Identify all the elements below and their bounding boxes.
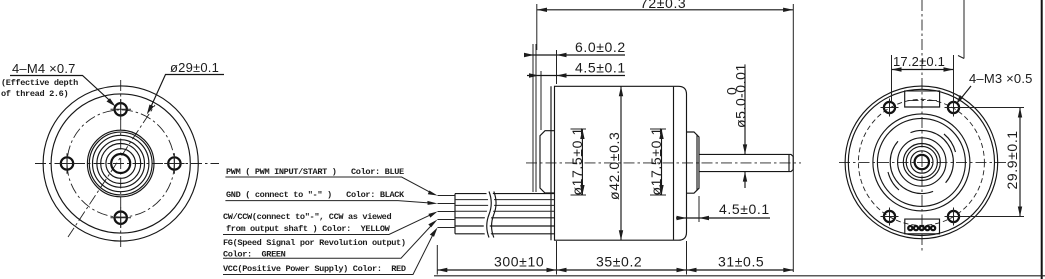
svg-text:FG(Speed Signal por Revolution: FG(Speed Signal por Revolution output) <box>223 238 406 248</box>
label dia 29 <box>147 60 224 115</box>
svg-text:CW/CCW(connect to"-", CCW as v: CW/CCW(connect to"-", CCW as viewed <box>223 212 391 222</box>
SIDE-VIEW <box>437 0 801 275</box>
hole top <box>111 99 132 120</box>
drawing frame right border <box>1041 0 1043 279</box>
left view inner flange circle <box>51 94 190 233</box>
rear circle r15.6 thick <box>906 146 937 177</box>
svg-text:300±10: 300±10 <box>494 254 544 270</box>
svg-text:PWM ( PWM INPUT/START ) Colo: PWM ( PWM INPUT/START ) Color: BLUE <box>226 167 404 177</box>
wire lines <box>455 200 555 212</box>
rear circle r18.5 <box>903 144 940 181</box>
dim dia5 shaft <box>724 63 749 188</box>
svg-text:17.2±0.1: 17.2±0.1 <box>893 54 945 69</box>
left view diagonal centerline <box>68 105 155 237</box>
left view boss circle 3 <box>97 140 145 188</box>
motor body crimp line <box>673 87 675 240</box>
rear hole top-left <box>881 99 899 117</box>
step extension lines <box>533 44 541 192</box>
rear outer circle <box>845 86 998 239</box>
label effective depth <box>1 78 78 99</box>
left view boss circle 4 <box>101 144 141 184</box>
motor body <box>555 86 687 240</box>
svg-text:35±0.2: 35±0.2 <box>596 254 642 270</box>
svg-text:4.5±0.1: 4.5±0.1 <box>719 201 770 217</box>
svg-text:4–M3 ×0.5: 4–M3 ×0.5 <box>969 71 1033 86</box>
hole left <box>57 153 77 173</box>
wire bundle outline <box>455 194 555 234</box>
svg-text:6.0±0.2: 6.0±0.2 <box>575 39 626 55</box>
svg-text:of thread 2.6): of thread 2.6) <box>1 89 68 99</box>
left view shaft hole <box>111 154 130 173</box>
svg-text:31±0.5: 31±0.5 <box>718 254 764 270</box>
pin hole 5 <box>931 226 935 230</box>
pin hole 1 <box>908 226 912 230</box>
left view boss circle 5 <box>106 149 136 179</box>
dim 17.2 <box>892 54 954 101</box>
left view boss circle 2 <box>93 135 149 191</box>
rear shaft hole <box>915 155 929 169</box>
svg-text:(Effective depth: (Effective depth <box>1 78 78 88</box>
left view vertical centerline <box>120 80 122 249</box>
dim 72 <box>537 0 794 272</box>
svg-text:ø5.0: ø5.0 <box>733 98 749 128</box>
dim dia17.5 left <box>569 127 586 195</box>
rear bolt circle dashed <box>858 99 984 225</box>
dim 6.0 <box>524 39 626 84</box>
svg-text:from output shaft ) Color: YE: from output shaft ) Color: YELLOW <box>226 224 391 234</box>
rear view vertical centerline <box>921 0 923 252</box>
rear top slot rect <box>905 91 940 107</box>
label GND wire <box>225 190 437 205</box>
WIRE-LABELS <box>223 167 438 275</box>
rear hole bottom-left <box>881 208 899 226</box>
REAR-VIEW <box>839 0 1033 252</box>
rear hole top-right <box>945 99 963 117</box>
rear hole bottom-right <box>945 208 963 226</box>
svg-text:GND ( connect to "-" ) Color: GND ( connect to "-" ) Color: BLACK <box>226 190 405 200</box>
svg-text:ø29±0.1: ø29±0.1 <box>170 60 219 75</box>
hole right <box>164 153 184 173</box>
rear connector box <box>905 219 940 234</box>
svg-text:VCC(Positive Power Supply) Col: VCC(Positive Power Supply) Color: RED <box>223 264 406 274</box>
wire break S-curves <box>487 192 496 238</box>
dim 4.5 right <box>676 196 770 222</box>
LEFT-VIEW <box>1 60 224 249</box>
dim 29.9 <box>961 108 1024 217</box>
pin hole 3 <box>920 226 924 230</box>
svg-text:-0.01: -0.01 <box>733 63 749 98</box>
dim dia17.5 right <box>648 127 666 195</box>
left view outer circle <box>43 86 198 241</box>
rear arc ring r31.5 <box>890 130 953 193</box>
dim 4.5 left <box>527 60 626 78</box>
hole bottom <box>111 208 132 229</box>
rear circle r49 <box>873 114 970 211</box>
svg-text:4.5±0.1: 4.5±0.1 <box>575 60 626 76</box>
svg-text:ø42.0±0.3: ø42.0±0.3 <box>606 132 622 200</box>
svg-text:4–M4 ×0.7: 4–M4 ×0.7 <box>12 61 76 76</box>
rear arc r35.5 <box>888 134 956 190</box>
left view bolt circle <box>67 110 174 217</box>
motor axis centerline <box>526 162 801 164</box>
pin hole 2 <box>914 226 918 230</box>
shaft tip chamfer line <box>788 155 790 172</box>
left boss <box>540 131 555 193</box>
motor body left face line <box>550 86 552 240</box>
shaft <box>699 154 793 171</box>
rear circle r24 <box>898 138 946 186</box>
svg-text:29.9±0.1: 29.9±0.1 <box>1004 130 1020 189</box>
dim dia42 <box>606 86 623 240</box>
label FG wire <box>223 220 438 260</box>
rear view horizontal centerline <box>839 161 1007 163</box>
cropped extension line top right <box>958 0 964 59</box>
label PWM wire <box>225 167 437 196</box>
right boss <box>687 132 700 193</box>
label CW/CCW wire <box>223 212 438 235</box>
label 4-M3 x0.5 <box>956 71 1032 104</box>
rear circle r44 <box>877 118 965 206</box>
wire stubs <box>438 196 456 228</box>
left view horizontal centerline <box>35 163 219 165</box>
drawing frame bottom border <box>434 275 1045 277</box>
right boss face inner line <box>696 135 698 191</box>
label VCC wire <box>223 228 438 275</box>
rear circle r11.2 <box>911 151 933 173</box>
label 4-M4 x0.7 <box>10 61 116 107</box>
left view boss circle 1 <box>87 130 154 197</box>
bottom dimension line <box>437 241 793 275</box>
rear flange circle <box>848 89 994 235</box>
pin hole 4 <box>925 226 929 230</box>
